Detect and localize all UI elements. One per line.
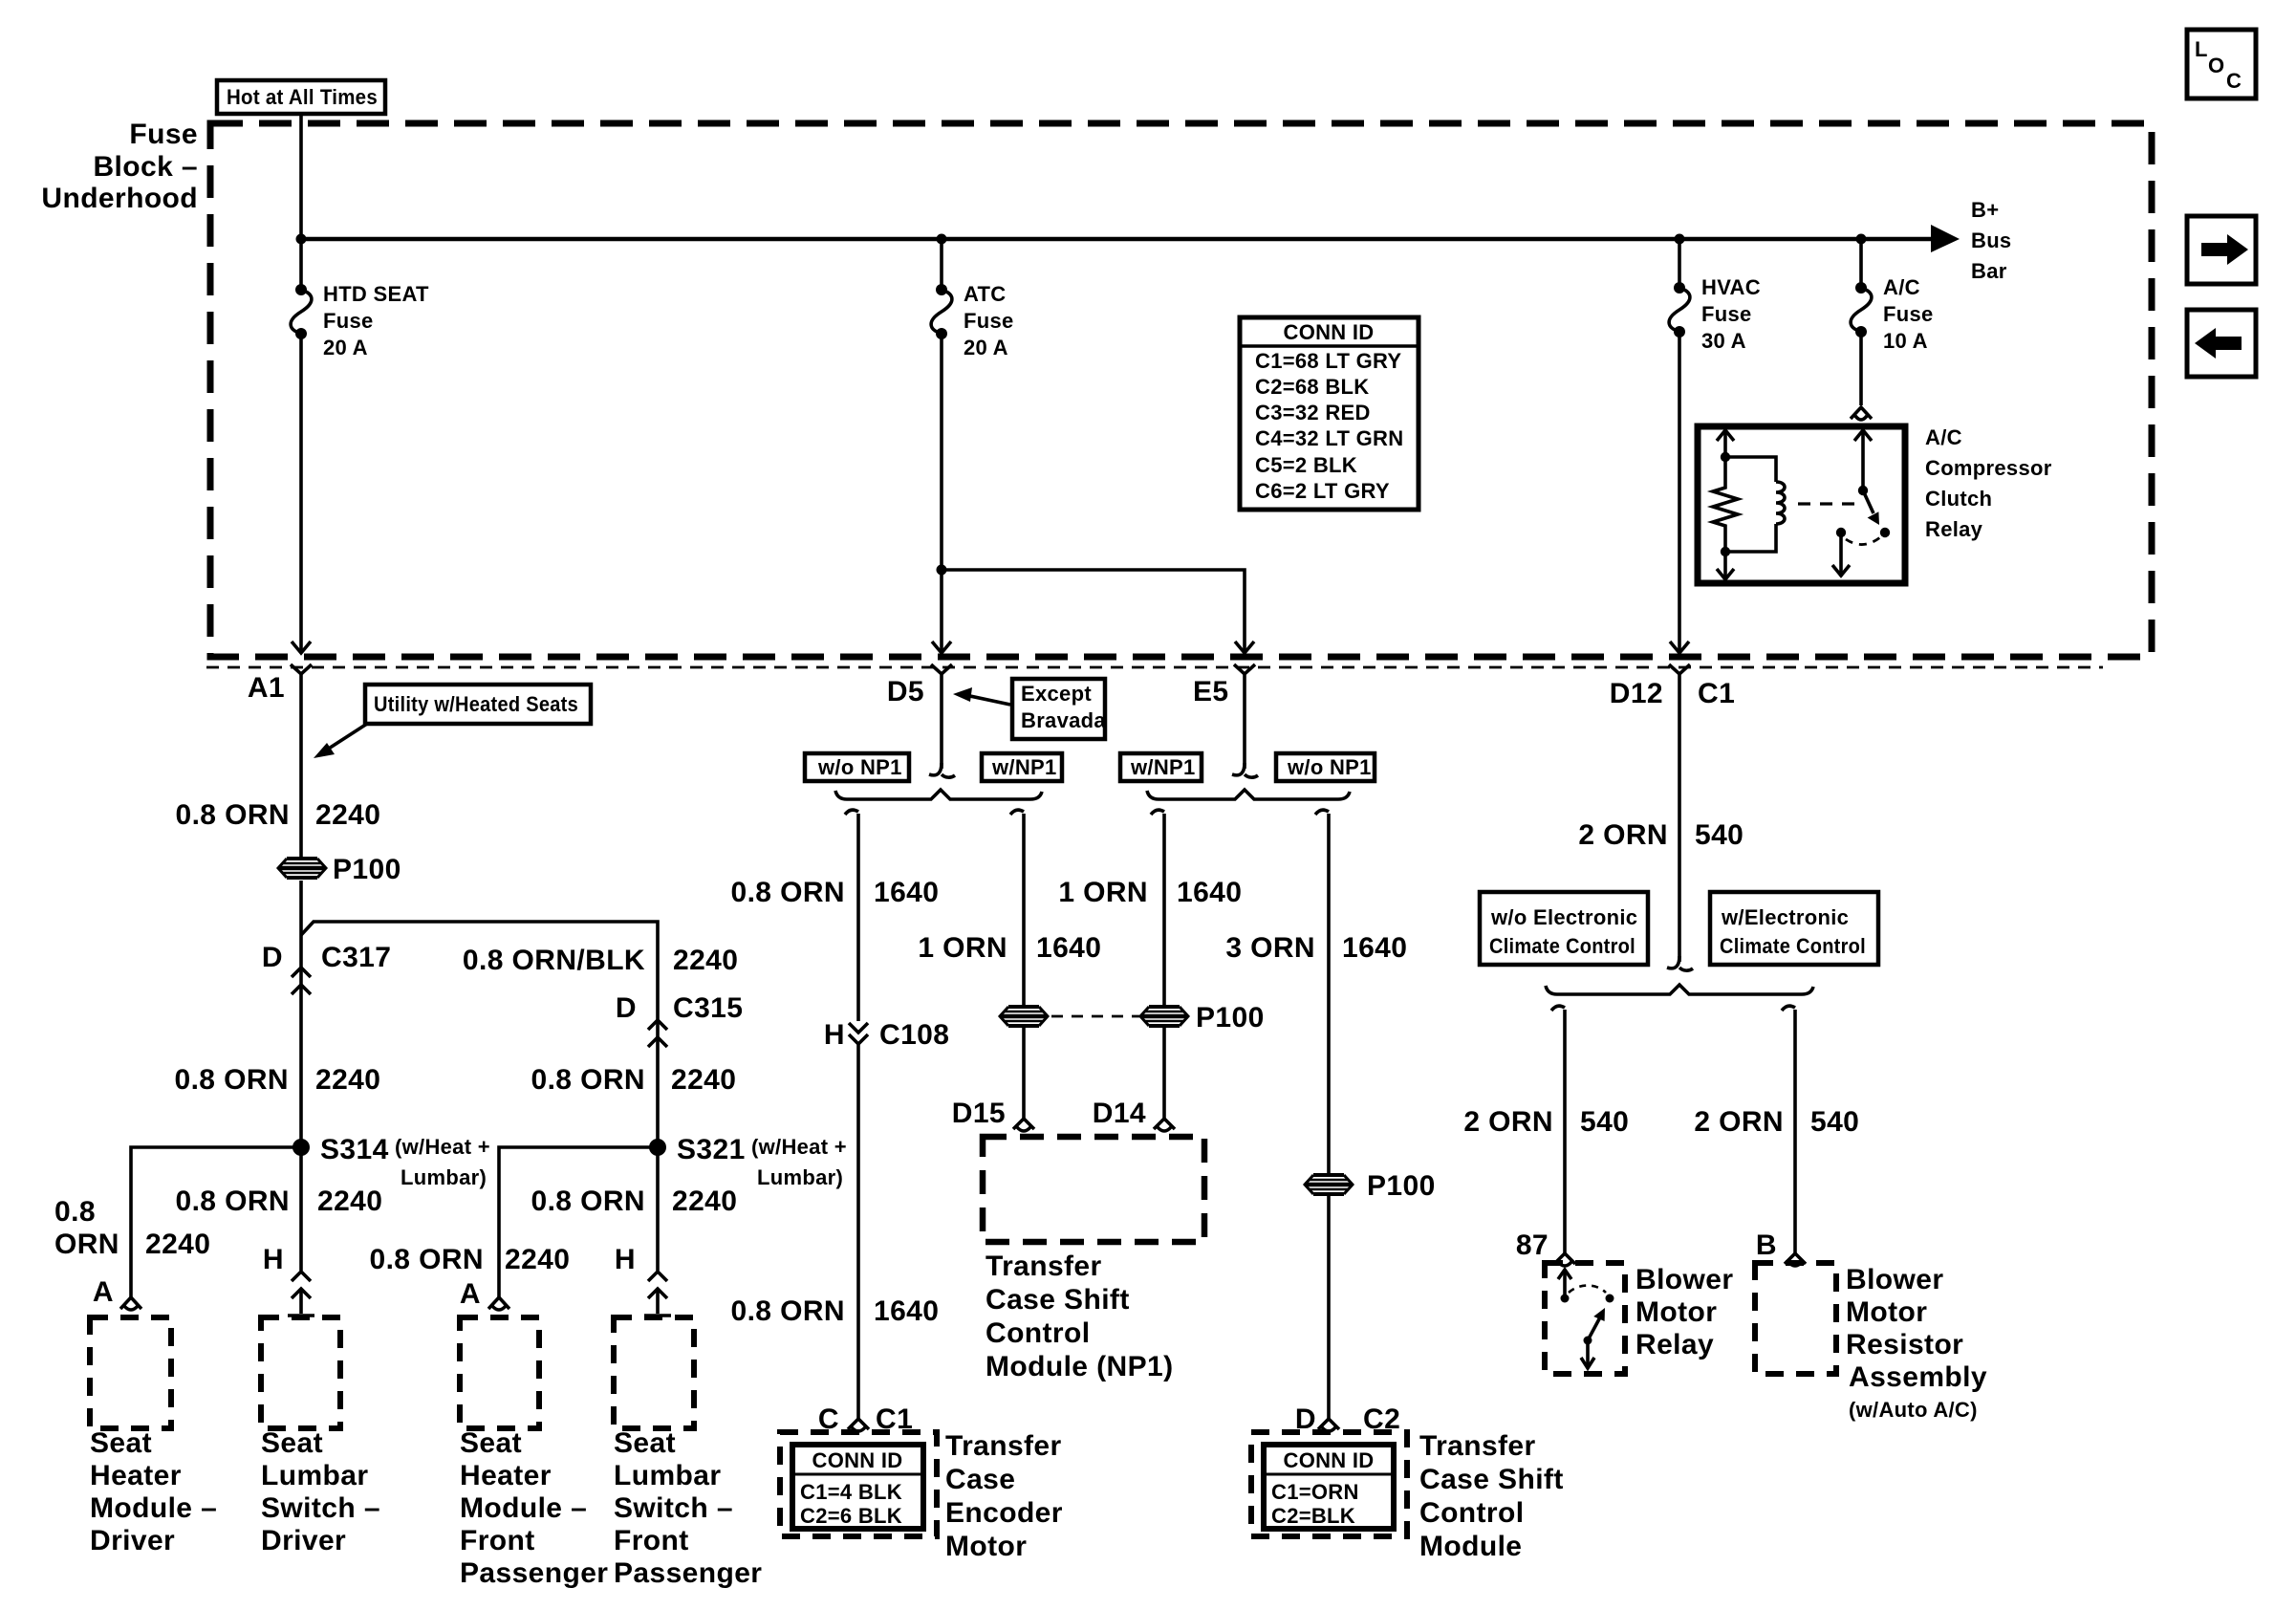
svg-text:Block –: Block – bbox=[93, 151, 198, 183]
svg-text:1640: 1640 bbox=[874, 877, 939, 908]
wire: branch from ATC junction to E5 bbox=[942, 570, 1245, 653]
splice S314 bbox=[292, 1139, 310, 1156]
svg-text:Clutch: Clutch bbox=[1925, 487, 1992, 511]
svg-text:Case Shift: Case Shift bbox=[1419, 1464, 1564, 1495]
svg-text:Motor: Motor bbox=[1635, 1296, 1717, 1328]
svg-text:2240: 2240 bbox=[671, 1064, 736, 1096]
svg-text:Seat: Seat bbox=[614, 1427, 676, 1459]
svg-text:0.8 ORN: 0.8 ORN bbox=[531, 1064, 645, 1096]
svg-text:Blower: Blower bbox=[1846, 1264, 1943, 1295]
svg-text:C317: C317 bbox=[321, 942, 391, 973]
svg-text:1640: 1640 bbox=[874, 1295, 939, 1327]
option box: w/o NP1 (right) bbox=[1276, 753, 1375, 781]
svg-text:w/NP1: w/NP1 bbox=[991, 755, 1057, 779]
grommet P100 (w/NP1 pair right) bbox=[1140, 1007, 1188, 1026]
svg-text:0.8 ORN: 0.8 ORN bbox=[369, 1244, 484, 1275]
wire: HTD SEAT fuse to A1 bbox=[299, 334, 303, 653]
svg-text:Seat: Seat bbox=[460, 1427, 522, 1459]
wire: C108 down to encoder motor bbox=[856, 1044, 860, 1419]
relay coil bbox=[1725, 457, 1776, 482]
wire: battery feed drop from Hot at All Times bbox=[299, 114, 303, 239]
svg-text:Bus: Bus bbox=[1971, 228, 2011, 252]
relay switch terminal (top) bbox=[1861, 429, 1865, 490]
connector Y into relay bbox=[1851, 407, 1872, 419]
sub-wire hook (w/ECC) bbox=[1782, 1006, 1795, 1011]
relay lower terminal arrow bbox=[1586, 1340, 1590, 1367]
relay resistor bbox=[1713, 457, 1738, 552]
svg-text:A/C: A/C bbox=[1883, 275, 1920, 299]
wire: HVAC fuse down to D12 bbox=[1678, 332, 1681, 653]
connector chevrons on H wire (driver) bbox=[292, 1272, 311, 1281]
wire: P100 to D15 bbox=[1022, 1028, 1026, 1119]
svg-text:Module –: Module – bbox=[460, 1492, 587, 1524]
svg-text:Driver: Driver bbox=[261, 1525, 346, 1556]
wire: ATC fuse down to D5 bbox=[940, 334, 943, 653]
connector D12 / C1 (fuse block to harness) bbox=[1669, 664, 1690, 674]
svg-text:Driver: Driver bbox=[90, 1525, 175, 1556]
svg-text:Fuse: Fuse bbox=[964, 309, 1014, 333]
svg-text:20 A: 20 A bbox=[964, 336, 1008, 359]
svg-text:0.8 ORN: 0.8 ORN bbox=[174, 1064, 289, 1096]
connector D5 (fuse block to harness) bbox=[931, 664, 952, 674]
svg-text:10 A: 10 A bbox=[1883, 329, 1928, 353]
svg-text:Resistor: Resistor bbox=[1846, 1329, 1963, 1360]
svg-text:2240: 2240 bbox=[315, 1064, 380, 1096]
svg-text:2 ORN: 2 ORN bbox=[1694, 1106, 1784, 1138]
B+ bus bar wire bbox=[301, 237, 1933, 242]
svg-text:P100: P100 bbox=[1196, 1002, 1265, 1033]
node: bus junction at HVAC bbox=[1675, 234, 1685, 245]
svg-text:Transfer: Transfer bbox=[986, 1251, 1102, 1282]
split brace under D12 bbox=[1546, 985, 1813, 994]
arrowhead at D12 exit bbox=[1670, 642, 1689, 653]
svg-text:Control: Control bbox=[986, 1317, 1090, 1349]
svg-text:2240: 2240 bbox=[673, 945, 738, 976]
svg-text:0.8 ORN: 0.8 ORN bbox=[175, 799, 290, 831]
svg-text:HTD SEAT: HTD SEAT bbox=[323, 282, 429, 306]
relay coil terminal (left) bbox=[1723, 429, 1727, 457]
svg-text:w/o NP1: w/o NP1 bbox=[817, 755, 902, 779]
connector C315 chevrons bbox=[648, 1020, 667, 1030]
svg-text:S314: S314 bbox=[320, 1134, 389, 1165]
sub-wire hook (w/NP1) bbox=[1010, 810, 1024, 815]
callout box: Except Bravada bbox=[1012, 679, 1105, 739]
svg-text:Fuse: Fuse bbox=[1883, 302, 1934, 326]
sub-wire hook (w/o NP1 E5) bbox=[1315, 810, 1329, 815]
svg-text:Switch –: Switch – bbox=[614, 1492, 733, 1524]
svg-text:Seat: Seat bbox=[90, 1427, 152, 1459]
splice S321 bbox=[649, 1139, 666, 1156]
node: bus junction at ATC bbox=[937, 234, 947, 245]
wire: w/o NP1 branch down to C108 bbox=[856, 814, 860, 1021]
svg-text:ORN: ORN bbox=[54, 1229, 119, 1260]
relay actuation dashed link bbox=[1798, 502, 1859, 505]
svg-text:30 A: 30 A bbox=[1701, 329, 1746, 353]
svg-text:O: O bbox=[2208, 54, 2224, 77]
svg-text:C3=32 RED: C3=32 RED bbox=[1255, 401, 1371, 424]
svg-text:Switch –: Switch – bbox=[261, 1492, 380, 1524]
svg-text:CONN ID: CONN ID bbox=[1284, 320, 1375, 344]
option box: w/Electronic Climate Control bbox=[1710, 892, 1878, 965]
svg-text:A: A bbox=[93, 1276, 114, 1308]
callout box: Utility w/Heated Seats bbox=[365, 685, 591, 724]
bus bar arrowhead bbox=[1931, 225, 1960, 252]
wire: A/C fuse to relay bbox=[1859, 332, 1863, 405]
fuse HVAC 30 A bbox=[1674, 282, 1685, 294]
svg-text:C108: C108 bbox=[879, 1019, 949, 1051]
svg-text:1 ORN: 1 ORN bbox=[1058, 877, 1148, 908]
svg-text:B+: B+ bbox=[1971, 198, 1999, 222]
grommet P100 (left) bbox=[278, 859, 326, 878]
fuse ATC 20 A bbox=[936, 284, 947, 295]
svg-text:Bar: Bar bbox=[1971, 259, 2007, 283]
svg-text:Module: Module bbox=[1419, 1531, 1522, 1562]
svg-text:Heater: Heater bbox=[90, 1460, 182, 1491]
wire: E5 stub bbox=[1243, 674, 1246, 769]
svg-text:0.8 ORN: 0.8 ORN bbox=[730, 877, 845, 908]
svg-text:Climate Control: Climate Control bbox=[1489, 934, 1635, 958]
wire: bus to ATC fuse bbox=[940, 239, 943, 290]
wire: S321 down (H) bbox=[656, 1147, 660, 1271]
svg-text:Module –: Module – bbox=[90, 1492, 217, 1524]
component box: Seat Lumbar Switch - Front Passenger bbox=[614, 1317, 694, 1428]
svg-text:2240: 2240 bbox=[145, 1229, 210, 1260]
svg-text:Module (NP1): Module (NP1) bbox=[986, 1351, 1173, 1382]
svg-text:Encoder: Encoder bbox=[945, 1497, 1063, 1529]
CONN ID table (control module) bbox=[1264, 1445, 1394, 1529]
relay switch lower terminal bbox=[1836, 528, 1846, 537]
wire: w/NP1 branch down to P100 bbox=[1022, 814, 1026, 1005]
svg-text:Hot at All Times: Hot at All Times bbox=[227, 85, 378, 109]
svg-text:1 ORN: 1 ORN bbox=[918, 932, 1007, 964]
svg-text:D: D bbox=[616, 992, 637, 1024]
svg-text:A: A bbox=[460, 1278, 481, 1310]
svg-text:C5=2 BLK: C5=2 BLK bbox=[1255, 453, 1357, 477]
connector chevrons on H wire (passenger) bbox=[648, 1272, 667, 1281]
svg-text:S321: S321 bbox=[677, 1134, 746, 1165]
node: ATC branch junction bbox=[937, 565, 947, 576]
svg-text:1640: 1640 bbox=[1342, 932, 1407, 964]
wire: bus to A/C fuse bbox=[1859, 239, 1863, 288]
svg-text:Control: Control bbox=[1419, 1497, 1524, 1529]
relay switch blade bbox=[1863, 490, 1874, 513]
svg-text:C2=BLK: C2=BLK bbox=[1271, 1504, 1355, 1528]
svg-text:H: H bbox=[263, 1244, 284, 1275]
svg-text:C1: C1 bbox=[1698, 678, 1735, 709]
svg-text:B: B bbox=[1756, 1229, 1777, 1261]
component box: Transfer Case Shift Control Module (NP1) bbox=[983, 1137, 1204, 1242]
wire: S321 branch to seat heater module passenger bbox=[499, 1147, 658, 1297]
svg-text:Lumbar: Lumbar bbox=[261, 1460, 368, 1491]
svg-text:H: H bbox=[615, 1244, 636, 1275]
svg-text:1640: 1640 bbox=[1177, 877, 1242, 908]
sub-wire hook (w/o ECC) bbox=[1551, 1006, 1565, 1011]
svg-text:Fuse: Fuse bbox=[129, 119, 198, 150]
svg-text:Front: Front bbox=[460, 1525, 535, 1556]
svg-text:Motor: Motor bbox=[945, 1531, 1027, 1562]
wire: P100 to C317 bbox=[299, 881, 303, 1147]
svg-text:Fuse: Fuse bbox=[323, 309, 374, 333]
svg-text:D5: D5 bbox=[887, 676, 924, 707]
svg-text:L: L bbox=[2195, 37, 2207, 61]
svg-text:Case: Case bbox=[945, 1464, 1015, 1495]
svg-text:2240: 2240 bbox=[672, 1186, 737, 1217]
svg-text:C2=68 BLK: C2=68 BLK bbox=[1255, 375, 1369, 399]
relay contact arrow (87) bbox=[1563, 1270, 1567, 1298]
CONN ID table (fuse block) bbox=[1240, 317, 1419, 510]
svg-text:540: 540 bbox=[1810, 1106, 1859, 1138]
svg-text:Bravada: Bravada bbox=[1021, 708, 1106, 732]
node: bus junction at HTD SEAT bbox=[296, 234, 307, 245]
wire: P100 to D/C2 bbox=[1327, 1196, 1331, 1419]
svg-text:Transfer: Transfer bbox=[945, 1430, 1062, 1462]
svg-text:0.8 ORN/BLK: 0.8 ORN/BLK bbox=[463, 945, 645, 976]
connector E5 (fuse block to harness) bbox=[1234, 664, 1255, 674]
svg-text:Lumbar: Lumbar bbox=[614, 1460, 721, 1491]
svg-text:E5: E5 bbox=[1193, 676, 1229, 707]
connector C317 chevrons bbox=[292, 968, 311, 977]
LOC box bbox=[2187, 30, 2256, 98]
svg-text:C6=2 LT GRY: C6=2 LT GRY bbox=[1255, 479, 1390, 503]
svg-text:Underhood: Underhood bbox=[41, 183, 198, 214]
svg-text:540: 540 bbox=[1695, 819, 1744, 851]
component box: Blower Motor Relay bbox=[1545, 1263, 1625, 1374]
svg-text:A1: A1 bbox=[248, 672, 285, 704]
svg-text:Seat: Seat bbox=[261, 1427, 323, 1459]
wire: P100 to D14 bbox=[1162, 1028, 1166, 1119]
split brace under D5 bbox=[835, 790, 1042, 799]
component box: Blower Motor Resistor Assembly bbox=[1755, 1263, 1836, 1374]
wire: bus to HVAC fuse bbox=[1678, 239, 1681, 288]
svg-text:Motor: Motor bbox=[1846, 1296, 1927, 1328]
svg-text:C1=4 BLK: C1=4 BLK bbox=[800, 1480, 902, 1504]
wire: S314 branch to seat heater module driver bbox=[131, 1147, 301, 1297]
callout box: Hot at All Times bbox=[217, 80, 385, 114]
wire: branch to C315 (0.8 ORN/BLK) bbox=[301, 922, 658, 1147]
svg-text:Case Shift: Case Shift bbox=[986, 1284, 1130, 1316]
fuse block underhood dashed box bbox=[210, 123, 2152, 657]
svg-text:0.8 ORN: 0.8 ORN bbox=[730, 1295, 845, 1327]
svg-text:Transfer: Transfer bbox=[1419, 1430, 1536, 1462]
svg-text:Lumbar): Lumbar) bbox=[401, 1165, 487, 1189]
svg-text:540: 540 bbox=[1580, 1106, 1629, 1138]
svg-text:H: H bbox=[824, 1019, 845, 1051]
nav box: left arrow bbox=[2187, 310, 2256, 377]
svg-text:Front: Front bbox=[614, 1525, 689, 1556]
svg-text:C1=ORN: C1=ORN bbox=[1271, 1480, 1359, 1504]
svg-text:Blower: Blower bbox=[1635, 1264, 1733, 1295]
split hook at E5 wire end bbox=[1232, 763, 1245, 775]
svg-text:Lumbar): Lumbar) bbox=[757, 1165, 843, 1189]
wire: E5 w/o NP1 branch down bbox=[1327, 814, 1331, 1173]
svg-text:(w/Heat +: (w/Heat + bbox=[395, 1135, 490, 1159]
svg-text:0.8 ORN: 0.8 ORN bbox=[531, 1186, 645, 1217]
sub-wire hook (w/NP1 E5) bbox=[1151, 810, 1164, 815]
svg-text:Passenger: Passenger bbox=[614, 1557, 762, 1589]
grommet P100 (3 ORN wire) bbox=[1305, 1175, 1353, 1194]
relay blade bbox=[1584, 1337, 1592, 1345]
split hook at D5 wire end bbox=[929, 763, 942, 775]
connector A into box1 bbox=[120, 1297, 141, 1309]
svg-text:C4=32 LT GRN: C4=32 LT GRN bbox=[1255, 426, 1403, 450]
wire: S314 down (H) bbox=[299, 1147, 303, 1271]
svg-text:Climate Control: Climate Control bbox=[1720, 934, 1866, 958]
dashed link between P100 grommets bbox=[1051, 1015, 1139, 1018]
svg-text:Relay: Relay bbox=[1925, 517, 1983, 541]
svg-text:A/C: A/C bbox=[1925, 425, 1962, 449]
svg-text:Relay: Relay bbox=[1635, 1329, 1714, 1360]
callout arrow to D5 wire bbox=[965, 695, 1010, 705]
wire: bus to HTD SEAT fuse bbox=[299, 239, 303, 290]
svg-text:w/o NP1: w/o NP1 bbox=[1287, 755, 1372, 779]
svg-text:1640: 1640 bbox=[1036, 932, 1101, 964]
callout arrow to A1 wire bbox=[321, 724, 367, 753]
wire: D12 stub down bbox=[1678, 674, 1681, 962]
arrowhead at D5 exit bbox=[932, 642, 951, 653]
svg-text:2 ORN: 2 ORN bbox=[1578, 819, 1668, 851]
svg-text:P100: P100 bbox=[333, 854, 401, 885]
svg-text:Heater: Heater bbox=[460, 1460, 552, 1491]
svg-text:C315: C315 bbox=[673, 992, 743, 1024]
option box: w/o NP1 (left) bbox=[805, 753, 909, 781]
fuse HTD SEAT 20 A bbox=[295, 284, 307, 295]
connector A1 (fuse block to harness) bbox=[291, 664, 312, 674]
wire: D5 stub bbox=[940, 674, 943, 769]
svg-text:(w/Auto A/C): (w/Auto A/C) bbox=[1849, 1398, 1978, 1422]
svg-text:3 ORN: 3 ORN bbox=[1225, 932, 1315, 964]
svg-text:D15: D15 bbox=[952, 1098, 1006, 1129]
svg-text:CONN ID: CONN ID bbox=[1284, 1448, 1375, 1472]
svg-text:HVAC: HVAC bbox=[1701, 275, 1761, 299]
svg-text:Fuse: Fuse bbox=[1701, 302, 1752, 326]
svg-text:Passenger: Passenger bbox=[460, 1557, 608, 1589]
grommet P100 (w/NP1 pair left) bbox=[1000, 1007, 1048, 1026]
relay contact dot (movable) bbox=[1606, 1295, 1614, 1303]
svg-text:w/NP1: w/NP1 bbox=[1130, 755, 1196, 779]
svg-text:Except: Except bbox=[1021, 682, 1092, 706]
svg-text:P100: P100 bbox=[1367, 1170, 1436, 1202]
svg-text:D14: D14 bbox=[1093, 1098, 1146, 1129]
split hook at D12 wire end bbox=[1667, 956, 1679, 968]
svg-text:20 A: 20 A bbox=[323, 336, 368, 359]
svg-text:D: D bbox=[262, 942, 283, 973]
svg-text:w/o Electronic: w/o Electronic bbox=[1490, 905, 1637, 929]
nav box: right arrow bbox=[2187, 216, 2256, 284]
node: bus junction at A/C bbox=[1856, 234, 1867, 245]
fuse A/C 10 A bbox=[1855, 282, 1867, 294]
svg-text:(w/Heat +: (w/Heat + bbox=[751, 1135, 847, 1159]
svg-text:Compressor: Compressor bbox=[1925, 456, 2052, 480]
wire: E5 w/NP1 branch down to P100 bbox=[1162, 814, 1166, 1005]
arrowhead at E5 exit bbox=[1235, 642, 1254, 653]
svg-text:w/Electronic: w/Electronic bbox=[1721, 905, 1849, 929]
connector A into box3 bbox=[488, 1297, 509, 1309]
component box: Seat Lumbar Switch - Driver bbox=[261, 1317, 340, 1428]
svg-text:CONN ID: CONN ID bbox=[812, 1448, 903, 1472]
svg-text:2240: 2240 bbox=[505, 1244, 570, 1275]
arrowhead at A1 exit bbox=[292, 642, 311, 653]
component box: Transfer Case Shift Control Module bbox=[1251, 1432, 1407, 1536]
svg-text:C: C bbox=[2226, 69, 2242, 93]
option box: w/NP1 (E5) bbox=[1120, 753, 1202, 781]
svg-text:87: 87 bbox=[1516, 1229, 1549, 1261]
split brace under E5 bbox=[1147, 790, 1350, 799]
sub-wire hook (w/o NP1) bbox=[845, 810, 858, 815]
svg-text:0.8: 0.8 bbox=[54, 1196, 96, 1228]
wire: A1 down to P100 bbox=[299, 674, 303, 857]
fine dashed separator line (harness boundary) bbox=[206, 666, 2103, 669]
svg-text:2 ORN: 2 ORN bbox=[1463, 1106, 1553, 1138]
option box: w/NP1 (D5) bbox=[982, 753, 1062, 781]
option box: w/o Electronic Climate Control bbox=[1480, 892, 1648, 965]
svg-text:C1=68 LT GRY: C1=68 LT GRY bbox=[1255, 349, 1401, 373]
svg-text:D12: D12 bbox=[1610, 678, 1663, 709]
CONN ID table (encoder motor) bbox=[792, 1445, 923, 1529]
component box: Seat Heater Module - Driver bbox=[90, 1317, 171, 1428]
svg-text:C2=6 BLK: C2=6 BLK bbox=[800, 1504, 902, 1528]
component box: Seat Heater Module - Front Passenger bbox=[460, 1317, 539, 1428]
component box: Transfer Case Encoder Motor bbox=[780, 1432, 937, 1536]
svg-text:Assembly: Assembly bbox=[1849, 1361, 1987, 1393]
wire: to blower motor resistor bbox=[1793, 1010, 1797, 1253]
A/C compressor clutch relay box bbox=[1698, 426, 1905, 583]
svg-text:Utility w/Heated Seats: Utility w/Heated Seats bbox=[374, 692, 578, 716]
svg-text:ATC: ATC bbox=[964, 282, 1006, 306]
wire: to blower motor relay bbox=[1563, 1010, 1567, 1253]
svg-text:2240: 2240 bbox=[315, 799, 380, 831]
svg-text:2240: 2240 bbox=[317, 1186, 382, 1217]
svg-text:0.8 ORN: 0.8 ORN bbox=[175, 1186, 290, 1217]
